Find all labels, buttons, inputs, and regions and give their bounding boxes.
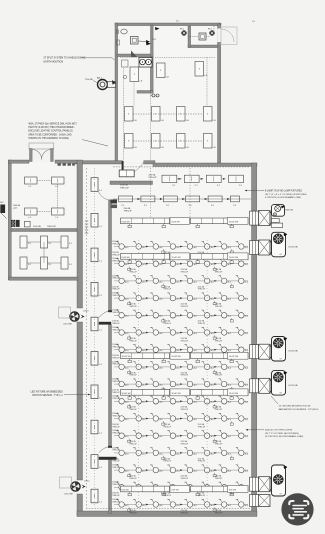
wall corridor upper endcap — [108, 310, 112, 312]
svg-text:20'x18' S/H: 20'x18' S/H — [172, 356, 182, 358]
svg-text:THRU-UP: THRU-UP — [198, 461, 206, 463]
fan AH-1 body — [98, 80, 108, 90]
corner room unit box — [199, 33, 206, 40]
svg-text:THRU-UP: THRU-UP — [215, 272, 223, 274]
RTU unit 4 — [250, 379, 259, 393]
svg-text:EF-1: EF-1 — [180, 29, 184, 31]
svg-text:8.1250 VA: 8.1250 VA — [289, 384, 299, 387]
storage rack row y=486 — [121, 486, 170, 492]
bar fixture row B — [119, 196, 133, 202]
svg-text:P-1: P-1 — [144, 205, 147, 207]
svg-text:7000 VA: 7000 VA — [85, 78, 93, 81]
svg-text:3 CIRCUITS, 8.4 KW DEMAND LOAD: 3 CIRCUITS, 8.4 KW DEMAND LOAD) — [265, 196, 301, 199]
svg-text:THRU-UP: THRU-UP — [198, 495, 206, 497]
svg-text:DH-1: DH-1 — [85, 480, 91, 482]
svg-text:30'x18' S/H: 30'x18' S/H — [122, 356, 132, 358]
wall hall west mid — [77, 322, 83, 480]
room1 wall ticks — [117, 40, 120, 45]
wall top-section west — [115, 23, 118, 163]
wall corridor vert upper — [109, 200, 112, 312]
svg-text:THRU-UP: THRU-UP — [124, 210, 133, 212]
wall hall north-right — [153, 163, 257, 166]
svg-text:THRU-UP: THRU-UP — [181, 340, 189, 342]
duplex receptacles — [152, 94, 155, 97]
svg-text:THRU-UP: THRU-UP — [215, 340, 223, 342]
top section riser east — [206, 58, 208, 107]
svg-text:8'x18' S/H: 8'x18' S/H — [172, 221, 181, 223]
svg-text:THRU-UP: THRU-UP — [112, 461, 120, 463]
svg-text:THRU-UP: THRU-UP — [112, 295, 119, 297]
svg-text:L-1: L-1 — [99, 295, 102, 297]
wall top-section north — [115, 23, 221, 26]
storage rack row y=390 — [121, 390, 170, 396]
svg-text:THRU-UP: THRU-UP — [181, 478, 189, 480]
svg-text:THRU-UP: THRU-UP — [112, 347, 119, 349]
room1 boxed unit — [131, 37, 139, 45]
room1 arrow — [138, 40, 146, 43]
svg-text:THRU-UP: THRU-UP — [112, 243, 119, 245]
svg-text:THRU-UP: THRU-UP — [112, 381, 119, 383]
svg-text:NORTH ADDITION: NORTH ADDITION — [44, 60, 64, 63]
svg-text:EF-1: EF-1 — [208, 29, 212, 31]
svg-text:L-2: L-2 — [29, 217, 32, 219]
svg-text:P-1: P-1 — [122, 205, 125, 207]
corridor wire riser — [94, 168, 96, 507]
watermark scan logo — [281, 493, 313, 525]
wall room1 east — [151, 25, 154, 57]
wall room1 south — [117, 54, 153, 57]
door leaf top section to hall — [122, 161, 124, 176]
svg-text:8.1250 VA: 8.1250 VA — [289, 246, 299, 249]
svg-text:L-1: L-1 — [99, 226, 102, 228]
svg-text:THRU-UP: THRU-UP — [163, 426, 171, 428]
svg-text:G7: G7 — [280, 393, 282, 395]
RTU unit5 extra duct — [259, 495, 271, 507]
svg-text:THRU-UP: THRU-UP — [112, 329, 119, 331]
wall hall north-mid — [144, 161, 155, 164]
svg-text:TD-1: TD-1 — [152, 39, 156, 41]
window hash marks right of vestibule — [58, 164, 61, 166]
svg-text:P-1: P-1 — [173, 185, 176, 187]
svg-text:L-1: L-1 — [99, 433, 102, 435]
svg-text:THRU-UP: THRU-UP — [112, 398, 119, 400]
svg-text:THRU-UP: THRU-UP — [112, 261, 119, 263]
svg-text:THRU-UP: THRU-UP — [198, 323, 206, 325]
svg-text:D-1: D-1 — [252, 21, 255, 23]
annex service panels — [11, 220, 15, 227]
svg-text:THRU-UP: THRU-UP — [215, 306, 223, 308]
svg-text:L-1: L-1 — [99, 502, 102, 504]
svg-text:THRU-UP: THRU-UP — [129, 444, 137, 446]
HPS fixture grid (circle rows) — [112, 241, 249, 256]
svg-text:BAROMETRIC ECONOMIZER - TYP (R: BAROMETRIC ECONOMIZER - TYP (RU-2) — [279, 408, 319, 411]
svg-text:THRU-UP: THRU-UP — [129, 340, 137, 342]
exit arrow top — [155, 27, 160, 30]
svg-text:100 CFM: 100 CFM — [64, 494, 73, 496]
corridor LED fixtures column — [91, 178, 98, 192]
svg-text:P-1: P-1 — [217, 185, 220, 187]
RTU unit 1 — [250, 211, 259, 225]
svg-text:L-1: L-1 — [99, 261, 102, 263]
svg-text:10 CIRCUITS, 84.8 KW DEMAND LO: 10 CIRCUITS, 84.8 KW DEMAND LOAD) — [265, 435, 304, 438]
svg-text:THRU-UP: THRU-UP — [112, 450, 119, 452]
svg-text:THRU-UP: THRU-UP — [163, 289, 171, 291]
corner room dashed wires — [188, 36, 199, 38]
svg-text:THRU-UP: THRU-UP — [163, 461, 171, 463]
svg-text:20'x18' S/H: 20'x18' S/H — [229, 356, 239, 358]
svg-text:AH-1: AH-1 — [97, 77, 103, 80]
svg-text:THRU-UP: THRU-UP — [215, 375, 223, 377]
room1 door wedge — [131, 51, 137, 58]
svg-text:ON 'T' (2" x 8' x 4" C/C WKS): ON 'T' (2" x 8' x 4" C/C WKS) ON FIXTURE… — [265, 194, 307, 196]
svg-text:G7: G7 — [280, 254, 282, 256]
wall annex north-left — [9, 160, 29, 163]
svg-text:THRU-UP: THRU-UP — [181, 375, 189, 377]
svg-text:L-1: L-1 — [99, 330, 102, 332]
fixture L-E right-room b — [195, 62, 204, 77]
storage rack row y=218 — [121, 218, 170, 224]
east wall door gap — [217, 29, 221, 43]
wall hall south — [77, 511, 257, 517]
svg-text:20'x20' S/H: 20'x20' S/H — [229, 257, 239, 259]
svg-text:THRU-UP: THRU-UP — [129, 306, 137, 308]
inner face dashed line top — [113, 166, 250, 168]
vestibule door arcs — [32, 150, 51, 160]
corridor connector bar mid — [99, 322, 111, 325]
svg-text:THRU-UP: THRU-UP — [112, 467, 119, 469]
svg-text:6000 VA: 6000 VA — [285, 209, 293, 212]
svg-text:P-1: P-1 — [234, 205, 237, 207]
corridor connector bar low — [99, 457, 117, 460]
svg-text:P-1: P-1 — [195, 185, 198, 187]
svg-text:F-1: F-1 — [49, 264, 52, 266]
hall wire risers — [150, 168, 152, 218]
svg-text:100 CFM: 100 CFM — [63, 324, 72, 326]
wall closet south — [137, 91, 153, 94]
fan AH-1 leader — [93, 81, 98, 84]
wall top-right vestibule vert — [188, 26, 191, 47]
leader service paragraph — [82, 140, 108, 147]
room south of room1 devices — [122, 60, 129, 67]
RTU unit 5 — [250, 477, 259, 491]
svg-text:THRU-UP: THRU-UP — [129, 512, 137, 514]
svg-text:THRU-UP: THRU-UP — [112, 415, 119, 417]
svg-text:SHOWN ON THIS DRAWING TO DATE): SHOWN ON THIS DRAWING TO DATE) — [28, 137, 69, 140]
svg-text:-wphr: -wphr — [13, 207, 18, 209]
svg-text:7000 VA: 7000 VA — [13, 204, 21, 207]
svg-text:ENCLOSE LIGHTING CONTROL PANEL: ENCLOSE LIGHTING CONTROL PANEL(S) — [28, 130, 73, 133]
hall panel top-left — [119, 170, 134, 177]
svg-text:8'x18' S/H: 8'x18' S/H — [122, 257, 131, 259]
WH circles — [140, 59, 146, 65]
ceiling fan EF-1 right — [210, 31, 215, 36]
door arc corridor bottom — [99, 447, 109, 453]
svg-text:THRU-UP: THRU-UP — [112, 426, 120, 428]
svg-text:G7: G7 — [280, 358, 282, 360]
svg-text:400A, 277/480V 3ph SERVICE DWL: 400A, 277/480V 3ph SERVICE DWL HIGH MGT. — [28, 123, 77, 126]
leader RTU note — [271, 396, 278, 404]
svg-text:THRU-UP: THRU-UP — [215, 478, 223, 480]
exterior door enclosure top-right — [221, 27, 237, 45]
svg-text:LED FIXTURE W/ EMBEDDED: LED FIXTURE W/ EMBEDDED — [31, 392, 63, 394]
wall corridor top horizontal — [110, 181, 153, 185]
wall top-section east — [218, 24, 221, 163]
RTU unit 2 — [250, 241, 259, 255]
wall corridor vert lower — [109, 460, 112, 514]
svg-text:L-2: L-2 — [56, 217, 59, 219]
fixture grid top section (L-E rows) — [125, 107, 134, 122]
door arc corridor mid — [99, 311, 109, 317]
rack row devices — [128, 225, 131, 227]
leader 8-lamp — [247, 190, 264, 192]
svg-text:THRU-UP: THRU-UP — [181, 409, 189, 411]
hall vertical wire risers — [138, 240, 140, 505]
svg-text:D-1: D-1 — [176, 21, 179, 23]
svg-text:L-1: L-1 — [99, 397, 102, 399]
wall top-right vestibule horiz — [188, 45, 218, 48]
svg-text:F-1: F-1 — [28, 264, 31, 266]
svg-text:L-1: L-1 — [99, 364, 102, 366]
svg-text:2500 VA: 2500 VA — [120, 184, 128, 187]
leader HPS note — [248, 429, 264, 431]
svg-text:THRU-UP: THRU-UP — [215, 444, 223, 446]
wall hall west lower — [77, 494, 83, 516]
svg-text:HIGH PP (4,000 PF) THRU TRANSF: HIGH PP (4,000 PF) THRU TRANSFORMER - — [28, 126, 75, 129]
svg-text:ON 'T' 17 C/C WKD (4H FIXTURES: ON 'T' 17 C/C WKD (4H FIXTURES) — [265, 433, 299, 435]
svg-text:THRU-UP: THRU-UP — [129, 409, 137, 411]
svg-text:THRU-UP: THRU-UP — [120, 187, 130, 189]
svg-text:GT GROUND MOUNTED RTU W/: GT GROUND MOUNTED RTU W/ — [279, 406, 311, 408]
svg-text:THRU-UP: THRU-UP — [181, 272, 189, 274]
svg-text:L-2: L-2 — [29, 186, 32, 188]
wall annex south — [9, 277, 78, 280]
svg-text:THRU-UP: THRU-UP — [129, 478, 137, 480]
svg-text:THRU-UP: THRU-UP — [215, 512, 223, 514]
inner face dashed line bottom — [86, 508, 250, 510]
svg-text:THRU-UP: THRU-UP — [181, 512, 189, 514]
svg-text:8-LAMP, T8 W HO-LAMP FIXTURES: 8-LAMP, T8 W HO-LAMP FIXTURES — [265, 190, 303, 193]
svg-text:P-1: P-1 — [166, 205, 169, 207]
svg-text:8.1250 VA: 8.1250 VA — [289, 350, 299, 353]
wall annex north-right — [55, 160, 77, 163]
svg-text:AREA TO BE CONFORMED - 1HDA LO: AREA TO BE CONFORMED - 1HDA LOAD — [28, 133, 72, 136]
svg-text:MOTION SENSOR - TYP, L-1: MOTION SENSOR - TYP, L-1 — [32, 395, 63, 397]
svg-text:8'x8' S/H: 8'x8' S/H — [122, 489, 130, 491]
svg-text:THRU-UP: THRU-UP — [198, 426, 206, 428]
svg-text:THRU-UP: THRU-UP — [112, 289, 120, 291]
svg-text:THRU-UP: THRU-UP — [112, 254, 120, 256]
plan paper interior — [78, 164, 253, 513]
svg-text:3000 W, 277V HPS LIGHTS: 3000 W, 277V HPS LIGHTS — [265, 430, 293, 432]
svg-text:THRU-UP: THRU-UP — [112, 358, 120, 360]
svg-text:F-1: F-1 — [28, 243, 31, 245]
svg-text:L-1: L-1 — [99, 190, 102, 192]
panels on corridor wall — [111, 200, 118, 204]
svg-text:THRU-UP: THRU-UP — [163, 495, 171, 497]
svg-text:THRU-UP: THRU-UP — [181, 306, 189, 308]
svg-text:F-1: F-1 — [69, 243, 72, 245]
exhaust fan DH-1 mid — [70, 312, 79, 321]
wall corridor vert mid — [109, 325, 112, 447]
annex upper room fixtures L-2 — [25, 177, 38, 184]
svg-text:L-1: L-1 — [99, 467, 102, 469]
svg-text:8'x18' S/H: 8'x18' S/H — [122, 221, 131, 223]
vestibule outline — [29, 143, 54, 149]
svg-text:8'x8' S/H: 8'x8' S/H — [229, 489, 237, 491]
svg-text:2500 VA: 2500 VA — [33, 225, 41, 228]
svg-text:THRU-UP: THRU-UP — [112, 495, 120, 497]
svg-text:THRU-UP: THRU-UP — [112, 433, 119, 435]
wall closet east — [151, 57, 154, 93]
inner face dashed line west — [86, 168, 88, 508]
annex interior — [10, 162, 76, 278]
door arc top section to hall — [124, 163, 144, 176]
svg-text:2T SPLIT SYSTEM TO HANDLE DC-W: 2T SPLIT SYSTEM TO HANDLE DC-WC — [44, 57, 86, 60]
svg-text:THRU-UP: THRU-UP — [112, 501, 119, 503]
fixture L-E right-room a — [157, 63, 166, 78]
door arc corridor top — [98, 187, 112, 201]
leader split-system — [80, 57, 112, 59]
room1 ellipse fixture — [121, 29, 127, 34]
svg-text:THRU-UP: THRU-UP — [163, 323, 171, 325]
bar fixture row A — [162, 175, 177, 182]
top section interior — [116, 24, 218, 162]
svg-text:THRU-UP: THRU-UP — [112, 323, 120, 325]
svg-text:F-1: F-1 — [49, 243, 52, 245]
storage rack row y=254 — [121, 254, 170, 260]
svg-text:THRU-UP: THRU-UP — [198, 289, 206, 291]
wall hall east — [252, 163, 257, 516]
svg-text:THRU-UP: THRU-UP — [181, 444, 189, 446]
exhaust fan DH-1 south — [71, 482, 80, 491]
svg-text:THRU-UP: THRU-UP — [112, 392, 120, 394]
svg-text:20'x20' S/H: 20'x20' S/H — [172, 257, 182, 259]
svg-text:THRU-UP: THRU-UP — [112, 278, 119, 280]
svg-text:F-1: F-1 — [69, 264, 72, 266]
svg-text:8'x8' S/H: 8'x8' S/H — [172, 489, 180, 491]
vestibule jamb right — [51, 149, 54, 162]
top section dashed wiring — [120, 57, 150, 59]
RTU unit 3 — [250, 345, 259, 359]
storage rack row y=353 — [121, 353, 170, 359]
leader led fixture — [64, 394, 88, 396]
WH closet box — [139, 58, 152, 68]
wall corridor gap bottom endcap — [108, 446, 112, 448]
svg-text:THRU-UP: THRU-UP — [112, 312, 119, 314]
wall ladder symbol — [85, 220, 88, 222]
ceiling fan EF-1 left — [182, 31, 187, 36]
wall annex divider — [11, 229, 77, 232]
svg-text:G7: G7 — [280, 493, 282, 495]
svg-text:30'x30' S/H: 30'x30' S/H — [122, 393, 132, 395]
wall hall north-left — [75, 161, 122, 164]
svg-text:THRU-UP: THRU-UP — [112, 484, 119, 486]
svg-text:30'x18' S/H: 30'x18' S/H — [229, 221, 239, 223]
svg-text:THRU-UP: THRU-UP — [148, 177, 157, 179]
fan AH-1 duct stub — [108, 82, 116, 88]
svg-text:THRU-UP: THRU-UP — [129, 272, 137, 274]
MDP meter cluster — [0, 205, 5, 214]
svg-text:P-1: P-1 — [239, 185, 242, 187]
wall hall west upper — [77, 160, 83, 308]
svg-text:THRU-UP: THRU-UP — [215, 409, 223, 411]
svg-text:THRU-UP: THRU-UP — [47, 226, 57, 228]
fixture L-E below closet — [130, 67, 139, 82]
svg-text:THRU-UP: THRU-UP — [129, 375, 137, 377]
wall annex west — [8, 160, 11, 280]
svg-text:30'x30' S/H: 30'x30' S/H — [172, 393, 182, 395]
svg-text:P-1: P-1 — [211, 205, 214, 207]
svg-text:THRU-UP: THRU-UP — [112, 364, 119, 366]
vestibule jamb left — [30, 149, 33, 162]
annex lower room fixtures F-1 — [20, 236, 27, 248]
door swing arc top-right — [221, 29, 234, 42]
svg-text:20'x20' S/H: 20'x20' S/H — [229, 393, 239, 395]
